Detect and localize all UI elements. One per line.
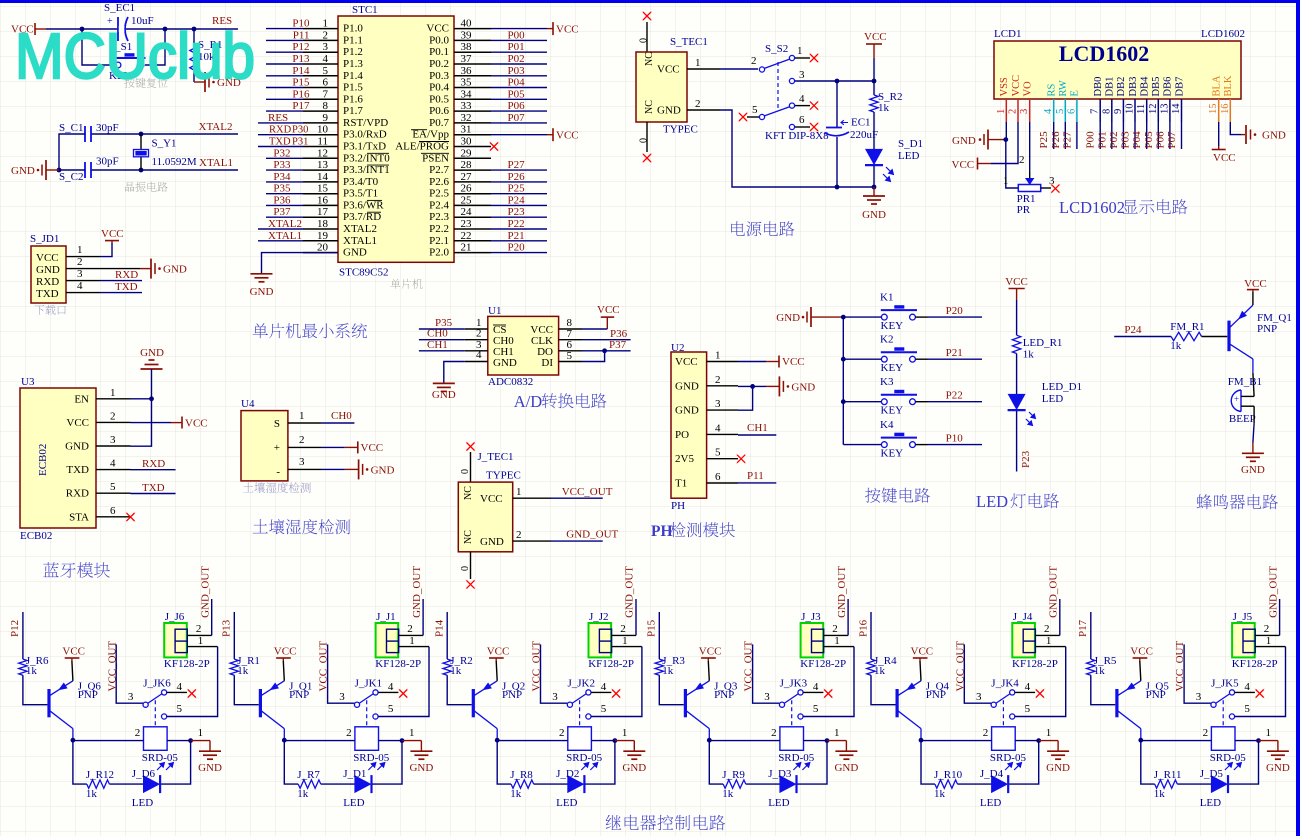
svg-text:5: 5 [1244,703,1250,715]
svg-text:VCC: VCC [556,130,579,142]
wire net P10 [915,444,927,446]
svg-text:4: 4 [323,53,329,65]
svg-text:24: 24 [461,206,473,218]
no connect ALE [489,142,499,152]
resistor FM_R1 1k [1171,332,1202,340]
led J_D5 [1211,775,1228,793]
svg-text:2: 2 [1019,154,1025,166]
svg-text:GND: GND [675,380,699,392]
wire net P12 [266,51,303,53]
svg-text:PNP: PNP [289,689,309,701]
svg-text:P1.3: P1.3 [343,58,363,70]
node junction reset-b [163,27,168,32]
pin 9 STC1 RST/VPD [303,122,338,124]
switch S_S2 blade 5-4 [759,114,764,119]
svg-text:1k: 1k [874,665,886,677]
svg-text:1: 1 [1266,727,1272,739]
wire P14 down [446,612,448,659]
svg-text:VCC: VCC [62,646,85,658]
svg-text:5: 5 [1055,109,1066,114]
svg-text:2: 2 [196,623,202,635]
svg-text:LED_R1: LED_R1 [1023,337,1063,349]
svg-text:DB1: DB1 [1105,77,1116,97]
svg-text:KF128-2P: KF128-2P [375,658,421,670]
svg-text:P01: P01 [1096,131,1108,148]
wire K3 left [843,401,881,403]
svg-text:XTAL1: XTAL1 [268,230,302,242]
pin 23 STC1 P2.2 [454,228,491,230]
resistor J_R9 1k [723,780,746,788]
svg-text:4: 4 [715,422,721,434]
svg-text:11.0592M: 11.0592M [152,156,197,168]
wire P12 down [22,612,24,659]
wire vo col3 [1029,122,1031,172]
node junction J_Q6 collector [71,738,76,743]
svg-text:15: 15 [1208,104,1219,115]
svg-text:KEY: KEY [881,405,904,417]
svg-text:J_J2: J_J2 [589,611,609,623]
wire VCC pin [491,134,547,136]
svg-text:TYPEC: TYPEC [663,124,698,136]
title an jian dian lu [865,488,880,503]
resistor J_R2 1k [443,659,451,675]
wire gnd_out [551,540,603,542]
no connect S_S2 pin5 [738,112,748,122]
svg-text:VCC: VCC [426,23,449,35]
wire en to gnd [131,398,152,400]
wire blk col16 [1230,122,1241,135]
svg-text:P02: P02 [508,53,525,65]
power port VCC STC1 [547,28,553,30]
node junction xtal1 [139,168,144,173]
ground STC1 [251,273,273,275]
svg-text:20: 20 [317,242,329,254]
wire VCC_OUT J_JK3 [753,644,780,703]
svg-text:GND_OUT: GND_OUT [1267,566,1279,618]
led S_D1 arrows [883,167,894,182]
svg-text:26: 26 [461,183,473,195]
svg-text:P34: P34 [273,171,291,183]
wire collector J_Q2 [496,729,498,741]
node junction relay J_J2 [613,738,618,743]
node junction reset-a [80,27,85,32]
pin 6 S_S2 [789,124,794,129]
wire P13 down [233,612,235,659]
svg-text:30pF: 30pF [96,122,119,134]
svg-text:3: 3 [110,434,116,446]
title ji dian qi kong zhi dian lu [606,815,622,830]
pin 27 STC1 P2.6 [454,181,491,183]
svg-text:P17: P17 [292,100,310,112]
pin 24 STC1 P2.3 [454,216,491,218]
transistor J_Q4 PNP [895,689,898,717]
svg-text:ALE/PROG: ALE/PROG [395,141,449,153]
pin 18 STC1 XTAL2 [303,228,338,230]
caption dan pian ji [390,279,400,289]
svg-text:P12: P12 [9,620,21,637]
node junction do-di [602,348,607,353]
svg-text:14: 14 [1171,103,1182,114]
wire XTAL2 [91,133,238,135]
svg-text:33: 33 [461,100,473,112]
svg-text:DB6: DB6 [1163,77,1174,97]
svg-text:U4: U4 [241,398,255,410]
svg-text:1k: 1k [1023,349,1034,361]
pin 15 STC1 P3.5/T1 [303,193,338,195]
svg-text:P05: P05 [508,88,526,100]
svg-text:VCC: VCC [699,646,722,658]
pin 8 U1 [559,328,582,330]
svg-text:J_J3: J_J3 [801,611,821,623]
svg-text:GND: GND [791,381,815,393]
svg-text:J_JK4: J_JK4 [991,678,1019,690]
svg-text:28: 28 [461,159,473,171]
wire J_JK5 pin5 [1235,647,1286,717]
wire GND pin20 [262,253,339,274]
relay SRD-05 J_J1 [366,726,368,728]
svg-text:P2.1: P2.1 [429,235,449,247]
svg-text:GND: GND [493,357,517,369]
svg-text:J_J1: J_J1 [376,611,396,623]
svg-text:P25: P25 [508,183,526,195]
led J_D1 [354,775,371,793]
svg-text:5: 5 [1025,703,1031,715]
wire net P35 u1 [419,328,465,330]
svg-text:P37: P37 [273,206,291,218]
wire led branch J_J4 [1008,741,1038,785]
svg-text:GND: GND [371,464,395,476]
svg-text:P23: P23 [1020,450,1032,468]
wire net P02 lcd [1122,122,1124,149]
power port VCC U3 [131,422,172,424]
node junction xtal2 [139,132,144,137]
wire net P30 [258,134,303,136]
pin 13 STC1 P3.3/INT1 [303,169,338,171]
pin 2 J_J5 [1255,634,1279,636]
wire XTAL1 [91,169,238,171]
svg-text:P13: P13 [292,53,310,65]
wire vcc rail [873,58,875,95]
svg-text:K3: K3 [880,376,894,388]
pin 4 STC1 P1.3 [303,63,338,65]
wire GND_OUT J_J1 [422,599,424,635]
svg-text:4: 4 [476,349,482,361]
svg-text:P20: P20 [946,305,964,317]
svg-text:7: 7 [323,88,329,100]
svg-text:KEY: KEY [881,362,904,374]
svg-text:S_TEC1: S_TEC1 [670,36,708,48]
svg-text:LED: LED [980,797,1001,809]
pin 3 STC1 P1.2 [303,51,338,53]
svg-text:CH1: CH1 [427,339,448,351]
power port VCC STC1 [547,134,553,136]
no connect J_JK2 pin4 [591,691,611,693]
svg-text:P0.3: P0.3 [429,70,449,82]
wire led to gnd [873,166,875,187]
svg-text:ECB02: ECB02 [20,530,52,542]
svg-text:1: 1 [1266,635,1272,647]
wire J_JK6 pin5 [167,647,218,717]
svg-text:P30: P30 [292,125,308,136]
svg-text:LED: LED [1200,797,1221,809]
svg-text:J_R11: J_R11 [1154,769,1182,781]
svg-text:9: 9 [1113,109,1124,114]
svg-text:J_R10: J_R10 [934,769,963,781]
svg-text:7: 7 [1090,109,1101,114]
svg-text:GND: GND [480,536,504,548]
wire J_JK3 pin5 [803,647,854,717]
wire net P05 [491,98,547,100]
svg-text:P17: P17 [1077,619,1089,637]
svg-text:4: 4 [77,280,83,292]
svg-text:CH1: CH1 [747,422,768,434]
svg-text:3: 3 [976,691,982,703]
pin 0 S_TEC1 top [646,22,648,52]
wire led branch J_J3 [797,741,827,785]
svg-text:J_D2: J_D2 [556,768,579,780]
svg-text:37: 37 [461,53,473,65]
wire VCC_OUT J_JK4 [964,644,991,703]
wire buzzer to gnd [1253,406,1255,423]
svg-text:P0.1: P0.1 [429,46,449,58]
svg-text:1: 1 [198,635,204,647]
svg-text:P10: P10 [292,18,310,30]
svg-text:4: 4 [601,681,607,693]
wire net P36 u1 [582,339,631,341]
svg-text:J_R8: J_R8 [510,769,533,781]
pin 17 STC1 P3.7/RD [303,216,338,218]
svg-text:34: 34 [461,88,473,100]
svg-text:1: 1 [834,635,840,647]
svg-text:36: 36 [461,65,473,77]
svg-text:S_JD1: S_JD1 [30,233,59,245]
svg-text:2: 2 [77,256,83,268]
svg-text:2: 2 [407,623,413,635]
node junction rail K1 [841,315,846,320]
wire net P01 lcd [1111,122,1113,149]
svg-text:LCD1602: LCD1602 [1201,28,1245,40]
svg-text:25: 25 [461,194,473,206]
svg-text:ADC0832: ADC0832 [488,376,533,388]
wire collector to buzzer [1252,359,1254,373]
wire net P04 lcd [1146,122,1148,149]
svg-text:P15: P15 [646,619,658,637]
svg-text:VCC: VCC [101,228,124,240]
wire bla col15 [1218,122,1220,146]
svg-text:GND: GND [657,105,681,117]
svg-text:1k: 1k [1170,340,1182,352]
wire net P10 [266,28,303,30]
svg-text:12: 12 [317,147,328,159]
ground U4 [322,468,345,470]
wire u3 gnd link [131,399,152,446]
pin 19 STC1 XTAL1 [303,240,338,242]
svg-text:10: 10 [317,124,329,136]
svg-text:P2.7: P2.7 [429,164,449,176]
svg-text:S_C2: S_C2 [59,171,83,183]
svg-text:17: 17 [317,206,329,218]
svg-text:VCC: VCC [782,356,805,368]
svg-text:VO: VO [1023,81,1034,97]
pin 5 STC1 P1.4 [303,75,338,77]
capacitor EC1 220uF [836,81,838,127]
svg-text:6: 6 [110,505,116,517]
wire net P33 [266,169,303,171]
wire GND_OUT J_J4 [1059,599,1061,635]
led J_D4 [991,775,1008,793]
wire net P03 [491,75,547,77]
potentiometer PR1 [1025,178,1034,185]
svg-text:3: 3 [299,456,305,468]
wire vcc to ledr1 [1016,300,1018,335]
wire net P03 lcd [1134,122,1136,149]
pin 3 S_S2 [789,78,794,83]
wire net P26 lcd [1064,122,1066,149]
svg-text:5: 5 [601,703,607,715]
wire net P34 [266,181,303,183]
ground relay J_J5 [1259,740,1278,742]
svg-text:16: 16 [317,194,329,206]
node junction ec1 bottom [835,185,840,190]
svg-text:2: 2 [715,374,721,386]
no connect S_S2 pin4 [795,105,810,107]
transistor J_Q2 PNP [472,689,475,717]
pin 1 J_J3 [824,646,854,648]
resistor J_R10 1k [935,780,958,788]
svg-text:KF128-2P: KF128-2P [588,658,634,670]
svg-text:1: 1 [409,635,415,647]
svg-text:P04: P04 [1131,131,1143,149]
resistor J_R8 1k [511,780,534,788]
svg-text:P0.5: P0.5 [429,93,449,105]
wire VCC_OUT J_JK5 [1184,644,1211,703]
led S_D1 [865,149,883,165]
node junction rail K2 [841,357,846,362]
title tu rang shi du jian ce [253,519,268,533]
wire GND_OUT J_J3 [847,599,849,635]
wire RXD [100,280,142,282]
svg-text:P11: P11 [747,470,764,482]
svg-text:VCC: VCC [1005,276,1028,288]
svg-text:VCC: VCC [556,24,579,36]
led J_D2 [567,775,584,793]
svg-text:GND: GND [1262,130,1286,142]
svg-text:E: E [1070,90,1081,96]
svg-text:P35: P35 [273,183,291,195]
svg-text:VCC: VCC [911,646,934,658]
svg-text:XTAL2: XTAL2 [343,223,377,235]
svg-text:NC: NC [644,100,655,114]
svg-text:2: 2 [1008,109,1019,114]
svg-text:KFT DIP-8X8: KFT DIP-8X8 [765,130,829,142]
svg-text:VCC_OUT: VCC_OUT [562,486,613,498]
svg-text:P22: P22 [508,218,525,230]
relay SRD-05 J_J4 [1002,726,1004,728]
svg-text:P03: P03 [1120,131,1132,149]
svg-text:22: 22 [461,230,472,242]
svg-text:GND: GND [952,135,976,147]
no connect J_TEC1 bottom [466,580,476,590]
pin 2 S_TEC1 [687,109,720,111]
svg-text:8: 8 [323,100,329,112]
svg-text:GND_OUT: GND_OUT [199,566,211,618]
svg-text:P26: P26 [508,171,526,183]
pin 1 J_TEC1 [513,497,551,499]
svg-text:1k: 1k [450,665,462,677]
wire net P22 [491,228,547,230]
wire net P37 [266,216,303,218]
svg-text:3: 3 [339,691,345,703]
node junction relay J_J4 [1036,738,1041,743]
pin 25 STC1 P2.4 [454,204,491,206]
pin 29 STC1 PSEN [454,157,491,159]
wire u3 txd [131,493,176,495]
node junction u2 gnd [750,384,755,389]
pin 1 J_J2 [612,646,642,648]
node junction relay J_J3 [825,738,830,743]
power port VCC U1 [582,328,607,330]
ground S_JD1 [140,268,151,270]
svg-text:P2.3: P2.3 [429,211,449,223]
svg-text:P13: P13 [221,619,233,637]
svg-text:P1.1: P1.1 [343,34,363,46]
svg-text:1: 1 [622,727,628,739]
svg-text:J_D1: J_D1 [343,768,366,780]
resistor LED_R1 1k [1012,335,1020,353]
ground U1 [444,362,465,384]
svg-text:EA/Vpp: EA/Vpp [412,129,449,141]
svg-text:RST/VPD: RST/VPD [343,117,388,129]
svg-text:P21: P21 [508,230,525,242]
svg-text:3: 3 [764,691,770,703]
svg-text:VCC: VCC [480,493,503,505]
svg-text:GND_OUT: GND_OUT [411,566,423,618]
svg-text:6: 6 [1066,109,1077,114]
node junction relay J_J1 [400,738,405,743]
node junction J_Q4 collector [919,738,924,743]
wire cap1 to gnd rail [59,134,85,170]
pin 7 STC1 P1.6 [303,98,338,100]
svg-text:PO: PO [675,429,689,441]
svg-text:1k: 1k [297,788,309,800]
svg-text:GND: GND [198,762,222,774]
svg-text:1k: 1k [86,788,98,800]
svg-text:PNP: PNP [1257,323,1277,335]
node junction J_Q5 collector [1138,738,1143,743]
wire vcc col2 [991,122,1018,164]
svg-text:30pF: 30pF [96,156,119,168]
svg-text:J_JK2: J_JK2 [568,678,596,690]
caption an jian fu wei [124,78,134,88]
svg-text:P03: P03 [508,65,526,77]
wire button branch left [82,29,114,65]
svg-text:3: 3 [715,398,721,410]
svg-text:1: 1 [516,486,522,498]
resistor J_R11 1k [1155,780,1178,788]
node junction relay J_J6 [188,738,193,743]
pin 28 STC1 P2.7 [454,169,491,171]
svg-text:2: 2 [516,529,522,541]
wire GND_OUT J_J6 [211,599,213,635]
svg-text:P11: P11 [293,29,310,41]
wire P16 down [870,612,872,659]
pin 1 J_J4 [1035,646,1065,648]
resistor J_R1 1k [230,659,238,675]
svg-text:5: 5 [177,703,183,715]
svg-text:LED: LED [556,797,577,809]
svg-text:+: + [274,442,280,454]
svg-text:5: 5 [323,65,329,77]
